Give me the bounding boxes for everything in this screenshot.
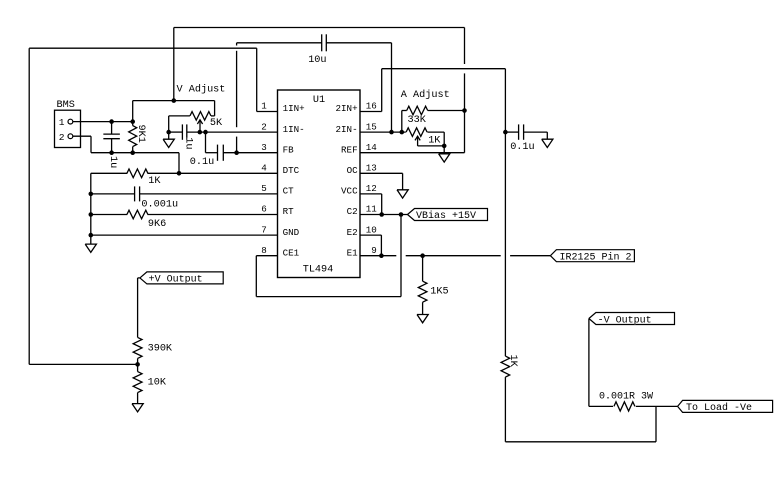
svg-text:CE1: CE1 [283,247,300,258]
svg-text:33K: 33K [408,115,427,126]
svg-text:1IN-: 1IN- [283,124,305,135]
svg-text:1K5: 1K5 [430,286,448,297]
svg-text:BMS: BMS [57,100,75,111]
svg-text:1K: 1K [507,355,518,368]
svg-text:VBias +15V: VBias +15V [416,210,476,222]
svg-text:3: 3 [261,142,267,153]
svg-text:2: 2 [261,121,267,132]
svg-text:GND: GND [283,227,300,238]
svg-text:IR2125 Pin 2: IR2125 Pin 2 [560,252,632,264]
svg-text:DTC: DTC [283,165,300,176]
svg-text:0.001R 3W: 0.001R 3W [599,392,653,403]
svg-text:5K: 5K [210,118,223,129]
svg-text:1K: 1K [148,176,161,187]
svg-text:E2: E2 [347,227,358,238]
svg-text:4: 4 [261,163,267,174]
svg-text:9K1: 9K1 [135,125,146,143]
svg-text:To Load -Ve: To Load -Ve [686,402,752,414]
svg-text:REF: REF [341,144,358,155]
svg-text:2IN-: 2IN- [336,124,358,135]
svg-text:E1: E1 [347,247,359,258]
svg-text:10K: 10K [148,377,167,388]
svg-text:-V Output: -V Output [598,315,652,326]
svg-text:OC: OC [347,165,359,176]
svg-text:+V Output: +V Output [149,275,203,286]
svg-text:C2: C2 [347,206,358,217]
svg-text:1IN+: 1IN+ [283,103,305,114]
svg-text:1u: 1u [107,156,118,168]
svg-text:U1: U1 [313,95,325,106]
svg-text:0.1u: 0.1u [190,157,214,168]
svg-text:CT: CT [283,186,295,197]
svg-text:V Adjust: V Adjust [177,84,226,96]
svg-text:A Adjust: A Adjust [401,89,450,101]
svg-text:9K6: 9K6 [148,219,166,230]
svg-text:5: 5 [261,183,267,194]
svg-text:2: 2 [59,132,65,143]
svg-text:1: 1 [59,117,65,128]
svg-text:11: 11 [366,204,378,215]
svg-text:VCC: VCC [341,186,358,197]
svg-text:10u: 10u [308,55,326,66]
svg-text:RT: RT [283,206,295,217]
svg-text:16: 16 [366,101,377,112]
svg-text:12: 12 [366,183,377,194]
svg-text:0.001u: 0.001u [141,199,178,210]
svg-text:2IN+: 2IN+ [336,103,358,114]
svg-text:9: 9 [371,245,377,256]
svg-text:TL494: TL494 [303,265,334,276]
svg-text:1: 1 [261,101,267,112]
svg-text:10: 10 [366,224,377,235]
svg-text:FB: FB [283,144,295,155]
svg-text:13: 13 [366,163,377,174]
svg-text:7: 7 [261,224,267,235]
svg-text:0.1u: 0.1u [510,142,534,153]
svg-text:1K: 1K [428,135,441,146]
svg-text:15: 15 [366,121,377,132]
svg-text:6: 6 [261,204,267,215]
svg-text:8: 8 [261,245,267,256]
svg-text:14: 14 [366,142,378,153]
svg-text:1u: 1u [183,137,194,149]
svg-text:390K: 390K [148,343,173,354]
